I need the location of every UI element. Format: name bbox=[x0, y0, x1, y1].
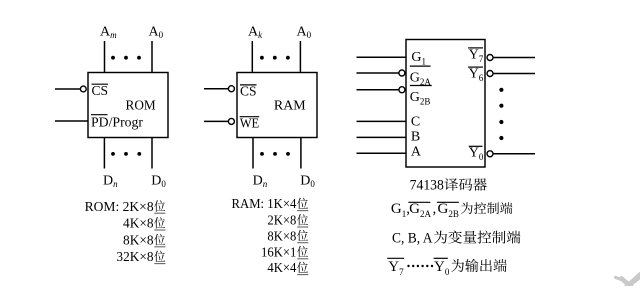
svg-text:A0: A0 bbox=[149, 25, 164, 41]
svg-text:16K×1: 16K×1 bbox=[261, 245, 296, 260]
svg-text:32K×8: 32K×8 bbox=[116, 250, 153, 265]
svg-text:D0: D0 bbox=[300, 173, 315, 189]
svg-text:WE: WE bbox=[240, 117, 260, 132]
svg-text:B: B bbox=[411, 130, 420, 145]
wire Y6 output bbox=[493, 73, 535, 75]
wire A input bbox=[357, 152, 407, 154]
watermark fragment bottom right bbox=[614, 272, 640, 287]
ellipsis dots ROM address bus bbox=[111, 56, 141, 60]
svg-text:2K×8: 2K×8 bbox=[267, 214, 296, 229]
wire RAM WE input bbox=[204, 120, 228, 122]
IC body 74138 decoder U3 bbox=[406, 40, 485, 168]
svg-text:CS: CS bbox=[240, 85, 257, 100]
inverter bubble Y6 output bbox=[487, 71, 493, 77]
svg-text:,: , bbox=[433, 201, 437, 217]
ellipsis dots RAM address bus bbox=[260, 56, 290, 60]
wire ROM address pin A0 bbox=[151, 41, 153, 73]
inverter bubble G2B bbox=[399, 87, 405, 93]
wire ROM data pin D0 bbox=[151, 138, 153, 169]
inverter bubble Y7 output bbox=[487, 55, 493, 61]
wire ROM PD/Progr input bbox=[55, 120, 88, 122]
wire Y7 output bbox=[493, 57, 535, 59]
svg-text:RAM: RAM bbox=[274, 99, 306, 114]
svg-text:Y0: Y0 bbox=[434, 259, 450, 277]
svg-text:CS: CS bbox=[92, 84, 109, 99]
wire G2B input bbox=[357, 89, 399, 91]
inverter bubble ROM CS bbox=[80, 86, 86, 92]
wire RAM data pin Dn bbox=[252, 138, 254, 169]
svg-text:D0: D0 bbox=[151, 173, 166, 189]
svg-text:G1: G1 bbox=[411, 50, 426, 67]
svg-text:Am: Am bbox=[100, 25, 117, 41]
ellipsis dots ROM data bus bbox=[111, 152, 141, 156]
svg-text:PD/Progr: PD/Progr bbox=[91, 115, 143, 130]
svg-text:A: A bbox=[411, 145, 422, 160]
inverter bubble RAM CS bbox=[228, 86, 234, 92]
wire G2A input bbox=[357, 72, 399, 74]
svg-text:Y7: Y7 bbox=[388, 259, 404, 277]
ellipsis dots RAM data bus bbox=[260, 152, 290, 156]
svg-text:A0: A0 bbox=[297, 25, 312, 41]
ellipsis dots Y outputs bbox=[499, 88, 503, 140]
inverter bubble G2A bbox=[399, 70, 405, 76]
svg-text:Y7: Y7 bbox=[469, 47, 484, 64]
svg-text:RAM: 1K×4: RAM: 1K×4 bbox=[232, 197, 297, 212]
IC body RAM U2 bbox=[237, 73, 317, 138]
wire RAM address pin A0 bbox=[299, 41, 301, 73]
svg-text:G1,: G1, bbox=[391, 201, 410, 219]
wire B input bbox=[357, 136, 407, 138]
svg-text:Dn: Dn bbox=[103, 173, 118, 189]
svg-text:Y6: Y6 bbox=[469, 67, 484, 84]
note line Y7..Y0 outputs bbox=[387, 257, 404, 259]
inverter bubble RAM WE bbox=[228, 118, 234, 124]
IC body ROM U1 bbox=[88, 73, 168, 138]
wire Y0 output bbox=[493, 153, 535, 155]
wire RAM address pin Ak bbox=[251, 41, 253, 73]
svg-text:G2A: G2A bbox=[410, 70, 432, 87]
svg-text:G2B: G2B bbox=[410, 90, 431, 107]
svg-text:ROM: 2K×8: ROM: 2K×8 bbox=[85, 200, 154, 215]
svg-text:G2B: G2B bbox=[438, 201, 459, 219]
svg-text:4K×4: 4K×4 bbox=[267, 261, 296, 276]
svg-text:8K×8: 8K×8 bbox=[267, 229, 296, 244]
overline of G2A label bbox=[410, 65, 431, 67]
wire ROM CS input bbox=[55, 88, 80, 90]
svg-text:Ak: Ak bbox=[248, 25, 263, 41]
wire ROM data pin Dn bbox=[103, 138, 105, 169]
svg-text:Y0: Y0 bbox=[469, 145, 484, 162]
wire C input bbox=[357, 120, 407, 122]
svg-text:Dn: Dn bbox=[253, 173, 268, 189]
svg-text:C: C bbox=[411, 115, 420, 130]
wire RAM data pin D0 bbox=[300, 138, 302, 169]
wire G1 input bbox=[357, 56, 407, 58]
wire RAM CS input bbox=[204, 88, 228, 90]
svg-text:4K×8: 4K×8 bbox=[123, 217, 154, 232]
svg-text:G2A: G2A bbox=[409, 201, 431, 219]
wire ROM address pin Am bbox=[104, 41, 106, 73]
overline of G2B label bbox=[410, 85, 432, 87]
svg-text:74138: 74138 bbox=[410, 178, 444, 194]
svg-text:8K×8: 8K×8 bbox=[123, 233, 154, 248]
inverter bubble Y0 output bbox=[487, 151, 493, 157]
svg-text:C, B, A: C, B, A bbox=[392, 231, 433, 247]
svg-text:ROM: ROM bbox=[126, 99, 157, 114]
